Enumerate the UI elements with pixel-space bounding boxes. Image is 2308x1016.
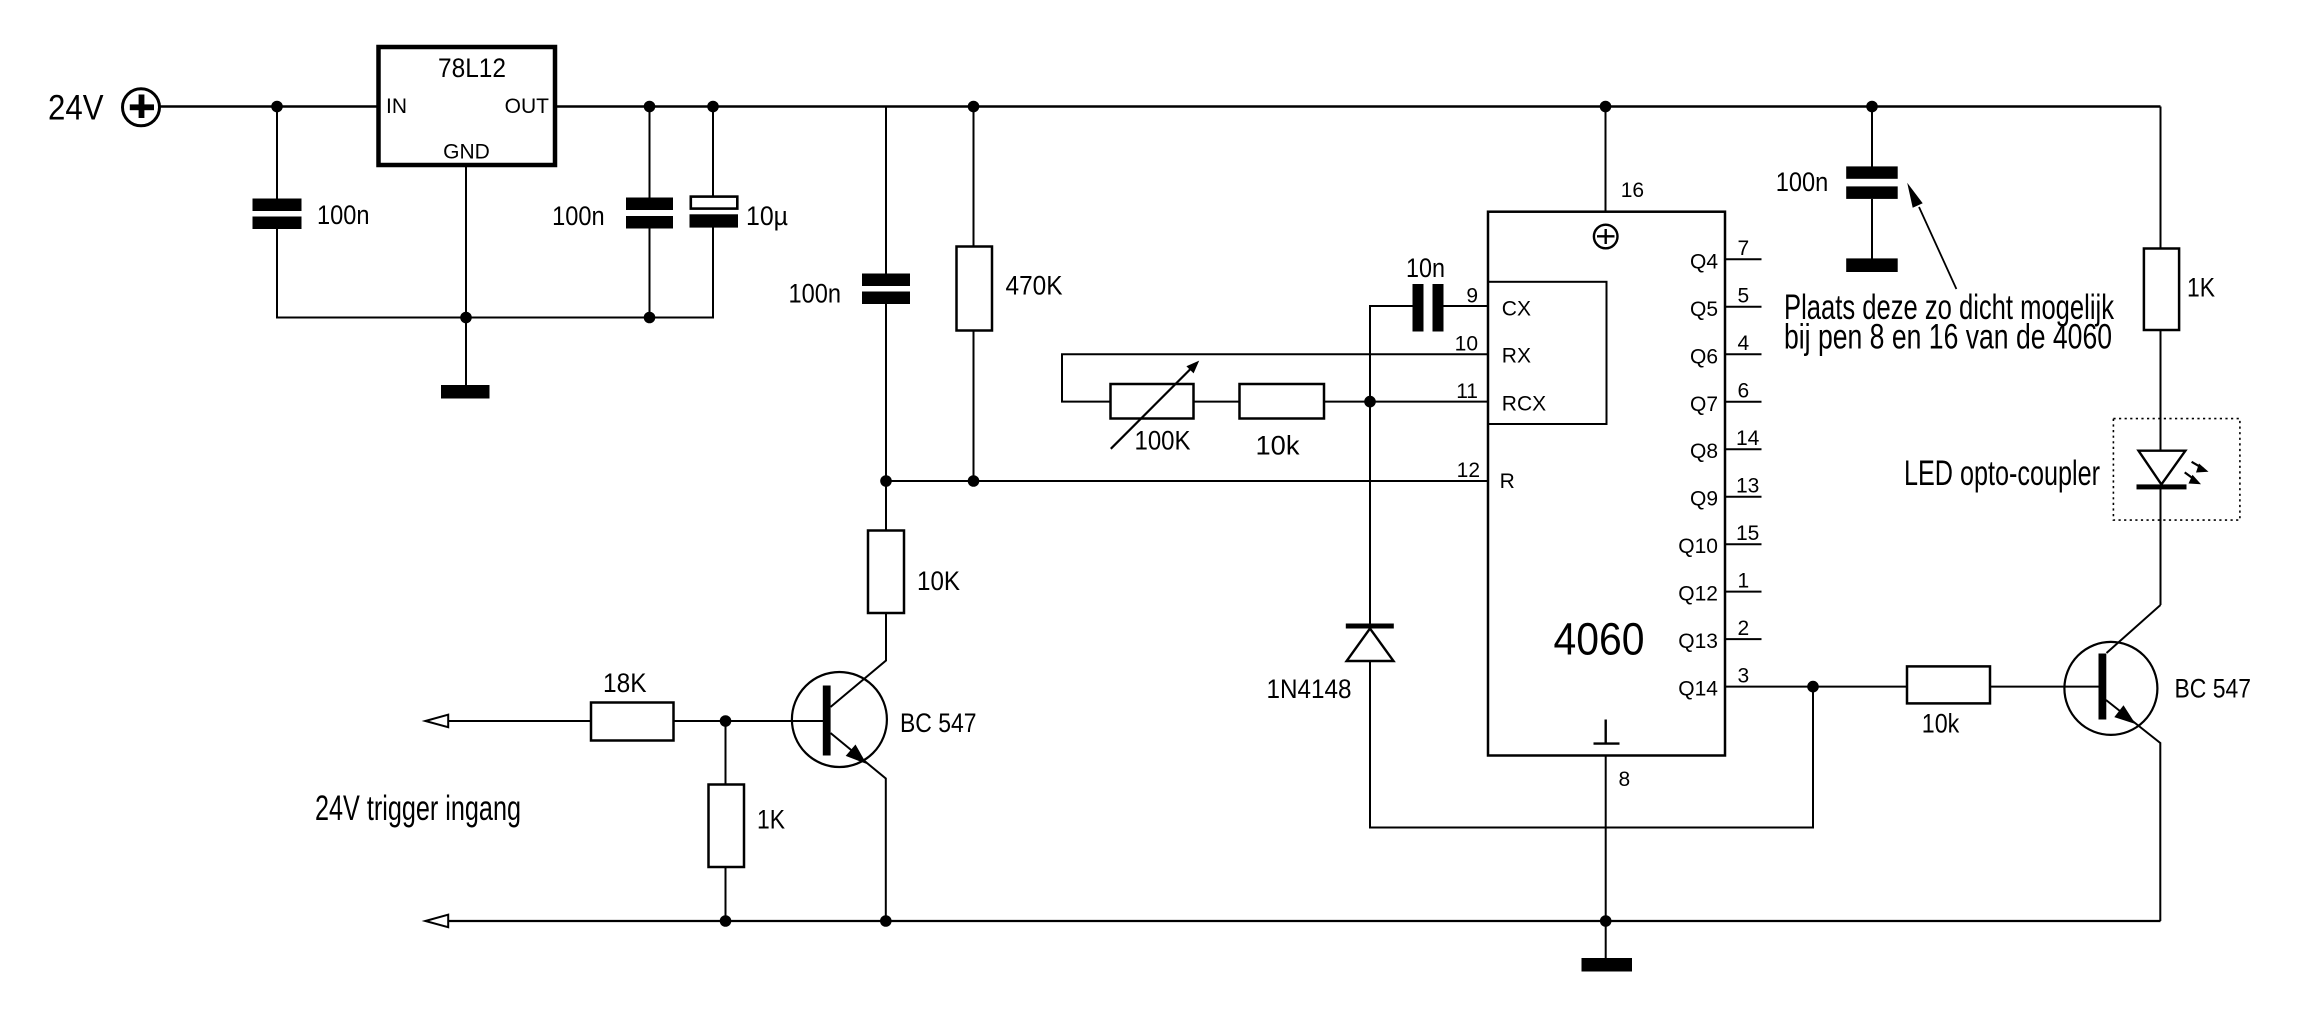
potentiometer P1 100K bbox=[1111, 361, 1200, 456]
svg-text:BC 547: BC 547 bbox=[2175, 673, 2252, 703]
pin Q12 stub bbox=[1725, 591, 1762, 593]
svg-text:78L12: 78L12 bbox=[438, 53, 506, 83]
resistor R5 470K bbox=[957, 247, 1063, 331]
node +24V input with plus terminal bbox=[48, 89, 160, 128]
svg-text:1: 1 bbox=[1738, 569, 1750, 592]
junction rail at C5 bbox=[1866, 101, 1878, 113]
svg-text:OUT: OUT bbox=[505, 95, 550, 118]
wire LED cathode down bbox=[2160, 488, 2162, 605]
wire +24V rail bbox=[160, 105, 2161, 108]
wire C5 lead to ground bar bbox=[1871, 199, 1873, 259]
IC U2 4060 bbox=[1488, 212, 1725, 756]
junction rail at C1 bbox=[271, 101, 283, 113]
svg-text:Q14: Q14 bbox=[1678, 678, 1718, 701]
wire C2 lower lead bbox=[649, 229, 651, 319]
pin Q4 stub bbox=[1725, 258, 1762, 260]
wire Q2 collector diagonal bbox=[2107, 605, 2161, 653]
wire C5 upper lead bbox=[1871, 107, 1873, 168]
svg-text:GND: GND bbox=[443, 141, 490, 164]
wire Q14 node down and across to diode bbox=[1370, 662, 1813, 828]
svg-text:BC 547: BC 547 bbox=[900, 708, 977, 738]
junction rail at 470K bbox=[968, 101, 980, 113]
capacitor C1 100n bbox=[253, 199, 370, 231]
wire R5 470K upper lead bbox=[973, 107, 975, 247]
svg-text:6: 6 bbox=[1738, 380, 1750, 403]
wire pin 8 lead bbox=[1605, 756, 1607, 922]
pin Q13 stub bbox=[1725, 638, 1762, 640]
svg-text:Q9: Q9 bbox=[1690, 488, 1718, 511]
svg-text:13: 13 bbox=[1736, 474, 1759, 497]
diode D1 1N4148 bbox=[1267, 624, 1394, 705]
wire pin 11 RCX stub bbox=[1370, 401, 1488, 403]
junction rail at C7 bbox=[707, 101, 719, 113]
svg-text:5: 5 bbox=[1738, 285, 1750, 308]
capacitor C5 100n top right bbox=[1776, 166, 1898, 199]
svg-text:Q6: Q6 bbox=[1690, 345, 1718, 368]
svg-text:24V trigger ingang: 24V trigger ingang bbox=[315, 789, 521, 828]
svg-text:100n: 100n bbox=[317, 200, 370, 230]
resistor R2 10k bbox=[1240, 384, 1325, 461]
svg-text:Q8: Q8 bbox=[1690, 440, 1718, 463]
resistor R8 1K bbox=[709, 785, 786, 868]
svg-text:IN: IN bbox=[386, 95, 407, 118]
junction Q1 base node bbox=[720, 715, 732, 727]
voltage regulator U1 78L12 bbox=[379, 47, 556, 165]
svg-text:1K: 1K bbox=[2187, 273, 2215, 303]
ground symbol below 78L12 bbox=[441, 385, 490, 399]
svg-text:100n: 100n bbox=[552, 201, 605, 231]
wire R3 1K to LED anode bbox=[2160, 330, 2162, 452]
wire GND pin of 78L12 down to ground bbox=[465, 165, 467, 386]
wire bottom ground bus bbox=[448, 920, 2161, 922]
svg-text:7: 7 bbox=[1738, 237, 1750, 260]
svg-text:12: 12 bbox=[1457, 459, 1480, 482]
wire C6 to pin 9 CX bbox=[1444, 305, 1489, 307]
wire Q1 collector bbox=[831, 613, 887, 708]
svg-text:4060: 4060 bbox=[1554, 613, 1645, 664]
wire bottom ground symbol stem bbox=[1605, 921, 1607, 959]
junction R line at C4 bbox=[880, 475, 892, 487]
junction Q14 node bbox=[1807, 681, 1819, 693]
svg-text:1N4148: 1N4148 bbox=[1267, 674, 1352, 704]
svg-text:CX: CX bbox=[1502, 298, 1531, 321]
svg-text:Q5: Q5 bbox=[1690, 298, 1718, 321]
svg-text:10K: 10K bbox=[917, 566, 960, 596]
wire R4 10k to Q2 base bbox=[1990, 686, 2099, 688]
capacitor C2 100n bbox=[552, 198, 673, 232]
wire C4 upper lead bbox=[885, 107, 887, 274]
junction bottom bus at pin 8 bbox=[1600, 915, 1612, 927]
LED in opto-coupler dotted box bbox=[2113, 419, 2240, 520]
svg-text:10n: 10n bbox=[1406, 253, 1445, 283]
wire R7 18K to Q1 base bbox=[673, 720, 823, 722]
pin Q7 stub bbox=[1725, 401, 1762, 403]
svg-text:bij pen 8 en 16 van de 4060: bij pen 8 en 16 van de 4060 bbox=[1784, 318, 2112, 357]
resistor R4 10k bottom right bbox=[1907, 666, 1990, 738]
svg-text:4: 4 bbox=[1738, 332, 1750, 355]
svg-text:16: 16 bbox=[1621, 179, 1644, 202]
junction bottom bus at R8 bbox=[720, 915, 732, 927]
svg-text:2: 2 bbox=[1738, 617, 1750, 640]
wire Q1 emitter to ground bus bbox=[831, 733, 886, 921]
wire Q14 pin 3 to R4 10k bbox=[1725, 686, 1907, 688]
wire C7 lower lead bbox=[712, 228, 714, 319]
wire regulator ground bus bbox=[277, 317, 713, 319]
capacitor C4 100n bbox=[789, 274, 911, 309]
junction RCX node bbox=[1364, 396, 1376, 408]
svg-text:10µ: 10µ bbox=[746, 201, 788, 231]
wire D1 cathode lead from RCX node bbox=[1369, 402, 1371, 625]
wire C2 upper lead bbox=[649, 107, 651, 199]
wire C7 upper lead bbox=[712, 107, 714, 198]
ground symbol inside IC bottom bbox=[1594, 720, 1620, 744]
wire trigger input to R7 18K bbox=[448, 720, 591, 722]
wire C1 upper lead bbox=[276, 107, 278, 200]
node trigger input arrow upper bbox=[425, 715, 448, 728]
wire P1 to R2 10k bbox=[1194, 401, 1240, 403]
svg-text:LED opto-coupler: LED opto-coupler bbox=[1904, 454, 2100, 493]
wire Q2 emitter to ground bus bbox=[2106, 700, 2160, 921]
junction bottom bus at Q1 emitter bbox=[880, 915, 892, 927]
junction ground bus at C2 bbox=[644, 312, 656, 324]
resistor R3 1K right bbox=[2144, 249, 2215, 331]
svg-text:100n: 100n bbox=[789, 279, 842, 309]
wire C4 lower lead to R line bbox=[885, 304, 887, 481]
svg-text:R: R bbox=[1500, 470, 1515, 493]
svg-text:15: 15 bbox=[1736, 522, 1759, 545]
svg-text:1K: 1K bbox=[757, 805, 785, 835]
svg-text:RCX: RCX bbox=[1502, 392, 1546, 415]
svg-text:8: 8 bbox=[1619, 768, 1631, 791]
wire R line down to R6 10K bbox=[885, 481, 887, 531]
svg-text:RX: RX bbox=[1502, 344, 1531, 367]
pin Q9 stub bbox=[1725, 496, 1762, 498]
svg-text:10: 10 bbox=[1455, 333, 1478, 356]
ground symbol bottom center bbox=[1582, 958, 1633, 972]
junction ground bus at GND stem bbox=[460, 312, 472, 324]
svg-text:100n: 100n bbox=[1776, 167, 1829, 197]
capacitor C6 10n bbox=[1406, 253, 1445, 332]
pin Q10 stub bbox=[1725, 543, 1762, 545]
svg-text:14: 14 bbox=[1736, 427, 1760, 450]
wire R8 1K upper lead bbox=[725, 721, 727, 785]
svg-text:18K: 18K bbox=[603, 668, 647, 698]
wire R3 1K right upper lead bbox=[2160, 107, 2162, 249]
svg-text:3: 3 bbox=[1738, 664, 1750, 687]
node trigger input arrow lower bbox=[425, 915, 448, 928]
junction rail at pin16 bbox=[1600, 101, 1612, 113]
power symbol plus inside IC top bbox=[1594, 225, 1618, 249]
svg-text:100K: 100K bbox=[1135, 426, 1191, 456]
svg-text:Q12: Q12 bbox=[1678, 583, 1718, 606]
svg-text:9: 9 bbox=[1466, 285, 1478, 308]
junction R line at 470K bbox=[968, 475, 980, 487]
pin Q5 stub bbox=[1725, 306, 1762, 308]
capacitor C7 10u electrolytic bbox=[690, 197, 789, 231]
svg-text:Q7: Q7 bbox=[1690, 393, 1718, 416]
svg-text:Q13: Q13 bbox=[1678, 630, 1718, 653]
svg-text:Q4: Q4 bbox=[1690, 250, 1718, 273]
wire R8 1K lower lead bbox=[725, 867, 727, 921]
wire pin 10 RX net to P1 bbox=[1062, 354, 1488, 401]
svg-text:Q10: Q10 bbox=[1678, 535, 1718, 558]
svg-text:10k: 10k bbox=[1256, 431, 1300, 461]
wire R5 470K lower lead bbox=[973, 330, 975, 481]
wire pin 12 R net bbox=[886, 480, 1488, 482]
resistor R6 10K bbox=[868, 531, 960, 614]
svg-text:24V: 24V bbox=[48, 89, 104, 128]
annotation arrow pointing to C5 bbox=[1907, 183, 1956, 289]
pin Q6 stub bbox=[1725, 353, 1762, 355]
wire CX net from node up to C6 bbox=[1370, 306, 1413, 402]
ground symbol bar below C5 bbox=[1846, 258, 1898, 272]
junction rail at C2 bbox=[644, 101, 656, 113]
transistor Q1 BC 547 bbox=[792, 672, 977, 767]
transistor Q2 BC 547 bbox=[2064, 642, 2251, 735]
svg-text:470K: 470K bbox=[1006, 271, 1063, 301]
wire pin 16 lead bbox=[1605, 107, 1607, 212]
resistor R7 18K bbox=[591, 668, 674, 741]
wire C1 lower lead bbox=[276, 229, 278, 319]
svg-text:10k: 10k bbox=[1922, 709, 1960, 739]
svg-text:11: 11 bbox=[1456, 380, 1478, 403]
wire R2 10k to RCX node bbox=[1324, 401, 1370, 403]
pin Q8 stub bbox=[1725, 448, 1762, 450]
